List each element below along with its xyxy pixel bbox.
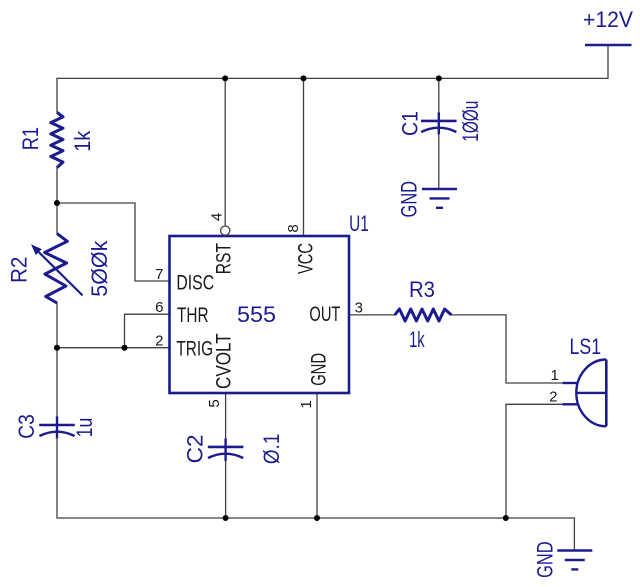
LS1 pin 2 stub [563,403,579,405]
LS1 pin 1 stub [563,382,579,384]
wire R2 bottom to TRIG node [56,303,58,348]
ground bar 1 [422,188,457,190]
wire node A to DISC pin 7 [57,203,170,281]
svg-text:5: 5 [206,399,223,407]
node TRIG junction left rail [54,345,60,351]
capacitor C2 [183,434,284,465]
svg-text:DISC: DISC [176,271,214,294]
node top rail RST junction [222,75,228,81]
wire R3 to LS1 pin 1 [451,315,562,383]
IC U1 555 timer [170,211,369,393]
svg-text:RST: RST [212,243,235,274]
node THR/TRIG junction [122,345,128,351]
wire R1 bottom to node A [56,168,58,204]
R2 zigzag body [45,234,68,303]
svg-text:LS1: LS1 [570,334,602,359]
svg-text:R2: R2 [7,257,32,283]
ground bar 2 [565,559,585,561]
ground bar 3 [571,568,578,570]
svg-text:CVOLT: CVOLT [212,333,235,389]
wire TRIG node down to C3 [56,348,58,417]
R2 wiper arrowhead [31,244,42,255]
node bottom rail GND pin junction [314,515,320,521]
svg-text:C3: C3 [14,414,39,439]
wire C3 bottom to bottom rail [57,438,574,518]
svg-text:1ØØu: 1ØØu [458,101,483,142]
ground bar 1 [557,549,592,551]
wire top rail +12V net [57,77,608,79]
svg-text:1: 1 [298,400,315,408]
wire C1 to ground symbol [438,134,440,189]
C3 center lead [56,416,58,438]
node A junction R1/R2/DISC [54,200,60,206]
LS1 dome arc [576,360,606,427]
node bottom rail LS1 junction [503,515,509,521]
ground bar 3 [436,207,443,209]
U1 body rectangle [170,236,350,393]
wire LS1 pin 2 to bottom rail [506,404,563,518]
wire left rail above R1 [56,78,58,112]
C1 flat plate [421,120,457,123]
svg-text:4: 4 [209,213,226,221]
wire GND pin 1 to bottom rail [316,393,318,518]
svg-text:C2: C2 [183,434,208,463]
wire from +12V power bar down to top rail [607,46,609,78]
wire bottom rail to ground symbol [573,518,575,551]
svg-text:OUT: OUT [309,303,340,326]
resistor R3 [395,277,452,352]
svg-text:TRIG: TRIG [176,337,213,360]
svg-text:555: 555 [237,302,276,327]
svg-text:2: 2 [549,388,557,405]
svg-text:5ØØk: 5ØØk [87,240,112,297]
svg-text:R1: R1 [18,127,43,150]
node bottom rail C2 junction [223,515,229,521]
power bar [585,44,632,47]
svg-text:GND: GND [307,353,330,386]
svg-text:2: 2 [155,332,163,349]
capacitor C1 [397,101,483,142]
svg-text:3: 3 [355,299,363,316]
LS1 flat back bar [605,360,608,427]
svg-text:C1: C1 [397,111,422,136]
svg-text:GND: GND [396,181,421,218]
potentiometer R2 [7,234,112,303]
svg-text:GND: GND [532,541,557,578]
svg-text:U1: U1 [349,211,369,236]
capacitor C3 [14,414,97,439]
wire THR pin 6 branch [125,314,170,348]
svg-text:R3: R3 [409,277,435,302]
C1 center lead [438,112,440,134]
node top rail C1 junction [436,75,442,81]
wire VCC pin 8 drop from top rail [303,78,305,236]
resistor R1 [18,112,95,167]
svg-text:+12V: +12V [583,7,633,32]
power symbol +12V [583,7,633,45]
ground symbol bottom right [532,541,592,578]
loudspeaker LS1 [549,334,606,426]
svg-text:1k: 1k [409,327,425,352]
svg-text:1: 1 [550,367,558,384]
R3 zigzag body [395,309,452,321]
C1 curved plate [421,128,456,132]
wire node A to R2 top [56,203,58,234]
ground bar 2 [430,197,450,199]
node top rail VCC junction [301,75,307,81]
svg-text:Ø.1: Ø.1 [259,434,284,465]
C2 center lead [224,439,226,461]
pin 4 inversion bubble [221,226,230,235]
svg-text:THR: THR [177,304,209,327]
R1 zigzag body [51,112,63,167]
svg-text:1k: 1k [70,130,95,152]
wire TRIG pin 2 [57,347,170,349]
svg-text:1u: 1u [72,418,97,438]
svg-text:6: 6 [155,299,163,316]
C2 curved plate [208,454,243,458]
C3 curved plate [39,432,74,436]
svg-text:VCC: VCC [294,243,317,274]
LS1 mid line [577,392,607,394]
ground symbol below C1 [396,181,457,218]
C3 flat plate [39,424,75,427]
svg-text:8: 8 [285,224,302,232]
wire C2 to bottom rail [225,461,227,518]
wire CVOLT pin 5 to C2 [225,393,227,439]
R2 wiper arrow shaft [39,252,83,295]
C2 flat plate [208,446,244,449]
wire RST pin 4 drop from top rail [224,78,226,226]
wire top rail to C1 [438,78,440,112]
wire OUT pin 3 to R3 [349,314,395,316]
svg-text:7: 7 [155,266,163,283]
